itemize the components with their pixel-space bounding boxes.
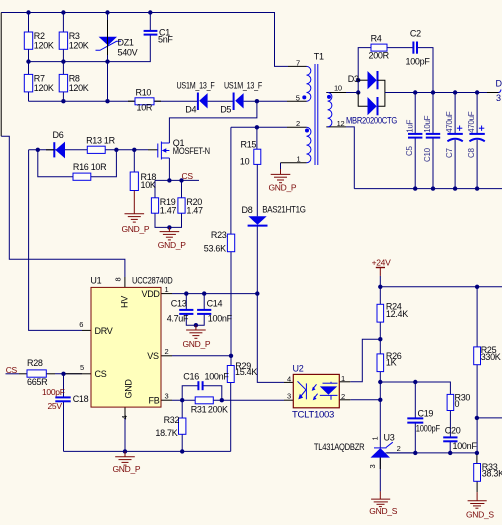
dual diode D3 (358, 71, 415, 115)
resistor R16 (73, 173, 91, 180)
wire Q1 source to CS node (168, 158, 170, 180)
wire clamp bottom rail (29, 100, 136, 102)
T1 primary winding upper (307, 66, 311, 101)
pin R10 sides (128, 100, 135, 102)
svg-text:R4: R4 (371, 34, 382, 44)
svg-text:1uF: 1uF (405, 120, 414, 133)
svg-text:C16: C16 (183, 371, 199, 381)
pin T1-7 (288, 65, 307, 67)
pin U2-3 (284, 399, 293, 401)
capacitor C5 (408, 134, 422, 138)
U1 pin names (95, 289, 161, 406)
T1 polarity dots (302, 95, 306, 99)
node gnd rail U1 (123, 449, 127, 453)
shunt reference U3 TL431 (371, 442, 416, 457)
svg-text:25V: 25V (48, 401, 63, 411)
svg-text:D3: D3 (348, 74, 359, 84)
svg-text:1: 1 (297, 155, 301, 164)
capacitor C13 (179, 310, 193, 314)
node C13 C14 gnd (194, 323, 198, 327)
svg-text:100pF: 100pF (42, 387, 65, 397)
svg-text:R28: R28 (27, 358, 43, 368)
pin R28 left (19, 373, 27, 375)
node out rail C5 (413, 90, 417, 94)
wire T1 pin1 to gnd (280, 163, 282, 169)
svg-text:CS: CS (95, 369, 107, 379)
svg-text:10: 10 (240, 156, 250, 166)
transistor Q1 (148, 142, 169, 160)
wire C2 to out rail (417, 48, 433, 93)
node R19 R20 gnd (167, 225, 171, 229)
ground GND_P under U1 (115, 451, 135, 465)
wire R2-R7 mid (28, 49, 30, 74)
wire HV startup left path to U1 pin 8 (0, 13, 2, 137)
wire C13 C14 bottom join (186, 314, 204, 325)
svg-text:GND_P: GND_P (158, 240, 186, 250)
wire C19 top (414, 382, 416, 418)
wire snubber to Q1 drain (169, 101, 257, 143)
svg-text:4.7uF: 4.7uF (167, 314, 189, 324)
svg-text:R15: R15 (241, 139, 257, 149)
resistor R33 (474, 464, 481, 482)
wire T1 pin10 to D3 (346, 92, 358, 94)
svg-text:GND_P: GND_P (113, 464, 141, 474)
svg-text:3: 3 (496, 93, 501, 103)
wire Q1 gate line (29, 149, 148, 151)
svg-text:120K: 120K (34, 83, 54, 93)
pin R33 top (476, 453, 478, 464)
wire C16 left branch (182, 386, 198, 401)
svg-text:C14: C14 (207, 298, 223, 308)
svg-text:C20: C20 (445, 426, 461, 436)
wire R25 top (476, 287, 478, 347)
wire C1 top (149, 13, 151, 31)
resistor R30 (447, 394, 454, 410)
wire DZ1 column top (107, 13, 109, 37)
wire C1 bottom return (108, 35, 151, 62)
svg-text:1K: 1K (386, 358, 397, 368)
svg-text:UCC28740D: UCC28740D (132, 275, 173, 285)
svg-text:DZ1: DZ1 (118, 37, 134, 47)
wire R24 bottom node (379, 322, 381, 354)
wire VDD column to opto pin4 (257, 294, 284, 383)
svg-text:10R: 10R (137, 103, 153, 113)
node clamp mid at R7 (26, 59, 30, 63)
wire R32 bottom (181, 434, 183, 451)
svg-text:R31: R31 (191, 405, 207, 415)
wire C10 top (432, 93, 434, 134)
wire C14 top (203, 294, 205, 310)
optocoupler U2 TCLT1003 (293, 374, 339, 407)
pin R33 bottom (476, 481, 478, 492)
wire R29 to primary gnd (230, 382, 232, 451)
svg-text:VS: VS (147, 351, 159, 361)
pin U1 GND (124, 407, 126, 418)
red net labels (6, 171, 495, 519)
svg-text:GND_P: GND_P (122, 224, 150, 234)
svg-text:+24V: +24V (372, 257, 392, 267)
wire U1 GND pin column (124, 407, 126, 451)
node clamp mid at R8 (61, 59, 65, 63)
wire CS node stub (155, 179, 199, 181)
svg-text:GND_S: GND_S (466, 509, 494, 519)
wire C18 bottom to gnd rail (63, 402, 65, 452)
wire R16 right up (91, 150, 117, 177)
pin U1 HV (124, 277, 126, 287)
power port +24V (376, 268, 385, 276)
node ref at R25 (475, 451, 479, 455)
wire C18 top (63, 374, 65, 397)
wire R19 R20 bottom join (155, 213, 182, 227)
svg-text:4: 4 (287, 375, 291, 384)
svg-text:MBR20200CTG: MBR20200CTG (346, 116, 397, 126)
node clamp mid at DZ1 (105, 59, 109, 63)
node sec return C7 (453, 186, 457, 190)
node fb out (475, 416, 479, 420)
svg-text:U1: U1 (90, 275, 101, 285)
wire R23 to VS to R29 (230, 252, 232, 366)
svg-text:VDD: VDD (142, 289, 161, 299)
node 24V at R24 (378, 285, 382, 289)
wire R4 to C2 (387, 47, 413, 49)
svg-text:200R: 200R (369, 50, 390, 60)
node gate at R16 (114, 148, 118, 152)
resistor R25 (474, 347, 481, 365)
node gate at R18 (132, 148, 136, 152)
pin U1 VDD (161, 293, 172, 295)
wire D3 anode split (357, 80, 359, 92)
svg-text:200K: 200K (208, 405, 228, 415)
svg-text:C18: C18 (73, 394, 89, 404)
wire output rail (385, 92, 488, 94)
svg-text:3: 3 (165, 391, 169, 400)
wire C10 bottom (432, 138, 434, 189)
resistor R13 (87, 146, 105, 153)
svg-text:U2: U2 (293, 363, 304, 373)
svg-text:C13: C13 (171, 298, 187, 308)
svg-text:10K: 10K (141, 180, 156, 190)
wire R16 lower branch (38, 150, 73, 177)
rotated cap labels (405, 111, 476, 162)
diode D5 (234, 93, 244, 111)
svg-text:MOSFET-N: MOSFET-N (173, 146, 210, 156)
node out rail C8 (475, 90, 479, 94)
wire R28 to C18 node (55, 373, 82, 375)
resistor R7 (24, 74, 32, 92)
wire R18 column (133, 150, 135, 172)
pin U2-1 (339, 381, 350, 383)
svg-text:DRV: DRV (95, 326, 113, 336)
svg-text:GND: GND (124, 379, 134, 399)
svg-text:R2: R2 (34, 31, 45, 41)
svg-text:TCLT1003: TCLT1003 (292, 409, 334, 419)
svg-text:120K: 120K (69, 83, 89, 93)
wire T1 pin12 down (346, 127, 354, 189)
wire +24V stem (379, 276, 381, 287)
svg-text:GND_P: GND_P (183, 339, 211, 349)
svg-text:TL431AQDBZR: TL431AQDBZR (314, 442, 365, 452)
svg-text:470uF: 470uF (467, 111, 476, 133)
wire primary gnd rail (64, 450, 231, 452)
svg-text:3: 3 (287, 392, 291, 401)
node sec return C10 (431, 186, 435, 190)
diode D8 (248, 216, 268, 225)
offpage connector right (499, 90, 502, 93)
ground GND_S under R33 (468, 492, 487, 508)
svg-text:120K: 120K (69, 41, 89, 51)
pin T1-1 (281, 162, 307, 164)
wire R8 bottom (62, 92, 64, 101)
wire secondary return rail (354, 188, 502, 190)
svg-text:1.47: 1.47 (160, 206, 177, 216)
svg-text:R13 1R: R13 1R (86, 136, 116, 146)
resistor R19 (151, 198, 158, 213)
pin U1 DRV (82, 329, 91, 331)
node sec return C8 (475, 186, 479, 190)
resistor R18 (130, 172, 138, 191)
svg-text:2: 2 (397, 444, 401, 453)
resistor R24 (377, 304, 384, 322)
svg-text:330K: 330K (481, 352, 501, 362)
node ref at C20 (448, 451, 452, 455)
capacitor C10 (426, 134, 440, 138)
svg-text:R3: R3 (69, 31, 80, 41)
svg-text:100nF: 100nF (205, 371, 230, 381)
wire R3 column (62, 13, 64, 33)
wire R32 top (181, 400, 183, 418)
pin U2-2 (339, 399, 350, 401)
wire D5 to T1 pin5 (244, 100, 287, 102)
node clamp bottom at DZ1 (105, 99, 109, 103)
pin T1-12 (326, 126, 346, 128)
wire C7 bottom (454, 140, 456, 189)
node bulk rail at DZ1 (105, 10, 109, 14)
svg-text:R10: R10 (136, 88, 152, 98)
svg-text:U3: U3 (384, 432, 395, 442)
node VS divider (229, 354, 233, 358)
wire HV bulk top rail (1, 13, 288, 67)
svg-text:R23: R23 (211, 230, 227, 240)
svg-text:1.47: 1.47 (186, 206, 203, 216)
node sec return C5 (413, 186, 417, 190)
svg-text:100nF: 100nF (453, 441, 478, 451)
pin U3 anode top (379, 458, 381, 470)
wire CS to U1 (64, 373, 83, 375)
svg-text:C8: C8 (467, 148, 476, 158)
T1 core (314, 64, 316, 165)
capacitor C1 (144, 31, 158, 35)
pin U1 VS (161, 355, 172, 357)
svg-text:C5: C5 (405, 146, 414, 156)
svg-text:GND_P: GND_P (269, 182, 297, 192)
node bulk rail at R2 (26, 10, 30, 14)
svg-text:C7: C7 (445, 148, 454, 158)
capacitor C20 (443, 437, 457, 441)
node D3 upper anode (356, 78, 360, 82)
diode D6 (46, 142, 65, 159)
svg-text:CS: CS (182, 171, 194, 181)
svg-text:120K: 120K (34, 41, 54, 51)
wire R10 to D4 (154, 100, 198, 102)
capacitor C2 (413, 42, 417, 54)
node CS sense at Q1 (167, 178, 171, 182)
node comp at C19 (413, 380, 417, 384)
resistor R20 (178, 198, 185, 213)
svg-text:D4: D4 (185, 105, 196, 115)
svg-text:3: 3 (368, 465, 377, 469)
wire FB line (172, 399, 284, 401)
svg-text:C2: C2 (410, 28, 421, 38)
svg-text:R32: R32 (164, 415, 180, 425)
pin T1-5 (287, 100, 307, 102)
svg-text:HV: HV (119, 296, 129, 308)
ground GND_P under R18 (125, 191, 145, 223)
svg-text:5nF: 5nF (158, 35, 173, 45)
node switch at D5 (255, 99, 259, 103)
resistor R32 (179, 418, 186, 434)
svg-text:100pF: 100pF (406, 57, 431, 67)
svg-text:12.4K: 12.4K (386, 309, 408, 319)
capacitor C19 (407, 418, 423, 422)
wire R25 bottom (476, 365, 478, 453)
svg-text:C10: C10 (423, 147, 432, 162)
IC U1 UCC28740D (91, 287, 161, 407)
svg-text:5: 5 (80, 363, 84, 372)
resistor R8 (59, 74, 67, 92)
svg-text:470uF: 470uF (445, 111, 454, 133)
wire T1 pin2 line (231, 126, 287, 128)
T1 primary winding lower (307, 127, 311, 163)
svg-text:FB: FB (149, 396, 160, 406)
wire R7 bottom (28, 92, 30, 101)
wire comp node line (380, 382, 450, 394)
pin U1 FB (161, 399, 172, 401)
node FB at R32 (180, 398, 184, 402)
svg-text:GND_S: GND_S (369, 506, 397, 516)
wire DRV gate drive left path (29, 150, 82, 331)
resistor R26 (377, 354, 384, 372)
node opto cathode (378, 398, 382, 402)
svg-text:R16 10R: R16 10R (73, 162, 107, 172)
node bulk rail at C1 (148, 10, 152, 14)
wire R24 top (379, 287, 381, 305)
svg-text:12: 12 (337, 119, 345, 128)
resistor R28 (27, 370, 46, 377)
pin T1-2 (287, 126, 307, 128)
pin stubs black (19, 66, 499, 492)
node VDD at C13 (184, 291, 188, 295)
pin U1 CS (82, 373, 91, 375)
svg-text:5: 5 (296, 93, 300, 102)
node out rail C10 (431, 90, 435, 94)
svg-text:2: 2 (341, 392, 345, 401)
resistor R10 (135, 98, 154, 105)
resistor R4 (371, 44, 387, 51)
wire C8 bottom (476, 140, 478, 189)
ground GND_S under U3 (371, 491, 390, 506)
wire +24V rail (380, 286, 502, 288)
wire U3 anode (379, 458, 381, 492)
pin U2-4 (284, 381, 293, 383)
pin R28 right (46, 373, 55, 375)
svg-text:D6: D6 (53, 130, 64, 140)
node aux winding (255, 125, 259, 129)
ground GND_P under R19 R20 (160, 227, 180, 240)
wire aux to R23 (230, 127, 232, 234)
svg-text:1: 1 (165, 285, 169, 294)
svg-text:10: 10 (334, 84, 342, 93)
wire C13 top (185, 294, 187, 310)
svg-text:0: 0 (455, 399, 460, 409)
svg-text:CS: CS (6, 365, 18, 375)
wire D4 to D5 (208, 100, 234, 102)
svg-text:US1M_13_F: US1M_13_F (224, 80, 263, 90)
navy labels (292, 79, 502, 420)
svg-text:15.4K: 15.4K (235, 367, 257, 377)
resistor R23 (227, 234, 234, 252)
node VDD at C14 (202, 291, 206, 295)
node comp top (378, 380, 382, 384)
wire fb out line right (477, 417, 502, 419)
wire R19 top (154, 180, 156, 197)
wire D3 to R4 snubber (358, 48, 371, 81)
node CS sense at R20 (179, 178, 183, 182)
wire opto pin2 to U3 (350, 399, 380, 401)
wire DZ1 column bottom (107, 49, 109, 102)
node out rail C7 (453, 90, 457, 94)
pin T1-10 (326, 92, 346, 94)
svg-text:BAS21HT1G: BAS21HT1G (262, 205, 306, 215)
capacitor C14 (197, 310, 211, 314)
svg-text:53.6K: 53.6K (204, 244, 226, 254)
svg-text:2: 2 (165, 347, 169, 356)
svg-text:1: 1 (341, 374, 345, 383)
wire CS net stub left (6, 373, 20, 375)
svg-text:10uF: 10uF (423, 115, 432, 132)
wire D8 to VDD (256, 225, 258, 293)
wire opto pin1 to R24 bottom (350, 339, 380, 382)
svg-text:18.7K: 18.7K (155, 428, 177, 438)
svg-text:C19: C19 (418, 409, 434, 419)
svg-text:1: 1 (371, 437, 380, 441)
svg-text:1000pF: 1000pF (416, 424, 441, 434)
wire C8 top (476, 93, 478, 134)
resistor R31 (195, 397, 213, 404)
node gnd rail R32 (180, 449, 184, 453)
node D3 lower anode (356, 90, 360, 94)
zener diode DZ1 (96, 20, 122, 55)
capacitor C7 polarized (447, 134, 462, 141)
plus marks C7 C8 (457, 126, 484, 131)
pin D3 out (487, 92, 499, 94)
node VDD at D8 (255, 291, 259, 295)
svg-text:7: 7 (296, 58, 300, 67)
node FB at R31 (220, 398, 224, 402)
wire VDD line (172, 293, 257, 295)
wire C20 bottom (449, 442, 451, 453)
wire R20 top (181, 180, 183, 197)
svg-text:D8: D8 (242, 205, 253, 215)
node bulk rail at R3 (61, 10, 65, 14)
resistor R2 (24, 32, 32, 49)
capacitor C8 polarized (469, 134, 484, 141)
wire mid clamp rail (29, 61, 108, 63)
ground GND_P under C13 C14 (186, 325, 206, 338)
wire C5 top (414, 93, 416, 134)
wire C7 top (454, 93, 456, 134)
node 24V at R25 (475, 285, 479, 289)
wire R2 column (28, 13, 30, 33)
